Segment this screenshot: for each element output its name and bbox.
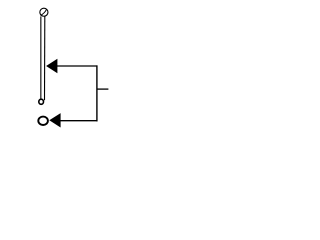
chord arc inside top circle (41, 9, 47, 15)
terminal circle top (40, 8, 48, 16)
arrow head bottom (49, 113, 60, 127)
stick right line (44, 16, 46, 100)
wire bottom horizontal (61, 120, 98, 122)
oval terminal (38, 117, 48, 125)
wire stub right (97, 88, 108, 90)
wire top horizontal (57, 65, 98, 67)
wire right vertical (96, 65, 98, 121)
arrow head top (46, 59, 57, 73)
node circle bottom of stick (39, 99, 44, 104)
stick left line (40, 16, 42, 99)
